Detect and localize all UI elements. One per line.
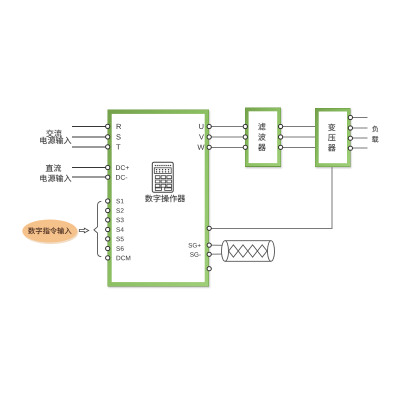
label DC power input xyxy=(40,164,71,182)
wire W to filter xyxy=(209,146,245,148)
twisted pair wire A xyxy=(229,245,267,257)
terminal W xyxy=(207,145,211,149)
terminal S xyxy=(106,135,110,139)
terminal DCM xyxy=(106,256,110,260)
filter box xyxy=(245,108,280,167)
label S3 xyxy=(116,218,123,223)
wire SG+ stub xyxy=(209,244,225,246)
keypad digital operator icon xyxy=(152,162,173,192)
label SG- xyxy=(190,252,201,256)
transformer right terminal 3 xyxy=(348,136,352,140)
filter right terminal 1 xyxy=(279,124,283,128)
terminal S4 xyxy=(106,227,110,231)
terminal S3 xyxy=(106,218,110,222)
label S2 xyxy=(116,208,123,213)
wire V to filter xyxy=(209,136,245,138)
terminal S5 xyxy=(106,237,110,241)
terminal S6 xyxy=(106,246,110,250)
transformer box xyxy=(315,108,350,167)
terminal NC xyxy=(207,267,211,271)
transformer right terminal 2 xyxy=(348,126,352,130)
filter right terminal 2 xyxy=(279,135,283,139)
terminal DC- xyxy=(106,175,110,179)
terminal R xyxy=(106,124,110,128)
wire U to filter xyxy=(209,126,245,128)
ellipse shadow xyxy=(23,221,78,244)
label filter xyxy=(258,123,266,151)
label V xyxy=(199,134,204,139)
wire T input xyxy=(72,146,108,148)
terminal S2 xyxy=(106,208,110,212)
label SG+ xyxy=(189,243,201,247)
wire SG- stub xyxy=(209,253,225,255)
wire DC+ input xyxy=(72,167,108,169)
twisted pair wire B xyxy=(229,245,267,257)
label W xyxy=(197,145,204,150)
wire load 1 xyxy=(350,117,367,119)
wire load 2 xyxy=(350,127,367,129)
transformer right terminal 4 xyxy=(348,146,352,150)
terminal U xyxy=(207,124,211,128)
label T xyxy=(116,144,120,149)
wire DC- input xyxy=(72,176,108,178)
terminal V xyxy=(207,135,211,139)
label load xyxy=(372,126,378,143)
arrow double xyxy=(79,228,88,233)
inverter main box xyxy=(108,110,209,286)
label transformer xyxy=(328,124,336,152)
transformer right terminal 1 xyxy=(348,115,352,119)
filter left terminal 3 xyxy=(243,145,247,149)
filter right terminal 3 xyxy=(279,145,283,149)
label S1 xyxy=(116,199,123,204)
terminal COM xyxy=(207,226,211,230)
label U xyxy=(199,124,203,129)
wire transformer bottom to inverter xyxy=(209,167,332,229)
terminal SG- xyxy=(207,252,211,256)
wire R input xyxy=(72,125,108,127)
wire load 3 xyxy=(350,137,367,139)
wire load 4 xyxy=(350,147,367,149)
wire filter to transformer 3 xyxy=(281,146,316,148)
wire filter to transformer 1 xyxy=(281,126,316,128)
terminal SG+ xyxy=(207,243,211,247)
wire filter to transformer 2 xyxy=(281,136,316,138)
callout ellipse digital command input xyxy=(22,220,77,243)
filter left terminal 1 xyxy=(243,124,247,128)
terminal DC+ xyxy=(106,165,110,169)
label S6 xyxy=(116,246,123,251)
brace grouping S1-DCM xyxy=(94,201,101,256)
label S xyxy=(116,134,120,139)
label DC+ xyxy=(116,165,129,170)
label S4 xyxy=(116,227,123,232)
label digital operator xyxy=(145,195,185,203)
wire S input xyxy=(72,136,108,138)
label digital command input xyxy=(28,227,71,234)
label DC- xyxy=(116,175,127,180)
terminal S1 xyxy=(106,199,110,203)
label AC power input xyxy=(40,130,71,144)
label R xyxy=(117,124,121,129)
label S5 xyxy=(116,237,123,242)
terminal T xyxy=(106,145,110,149)
filter left terminal 2 xyxy=(243,135,247,139)
label DCM xyxy=(117,256,131,261)
shielded twisted pair cable xyxy=(222,241,275,262)
